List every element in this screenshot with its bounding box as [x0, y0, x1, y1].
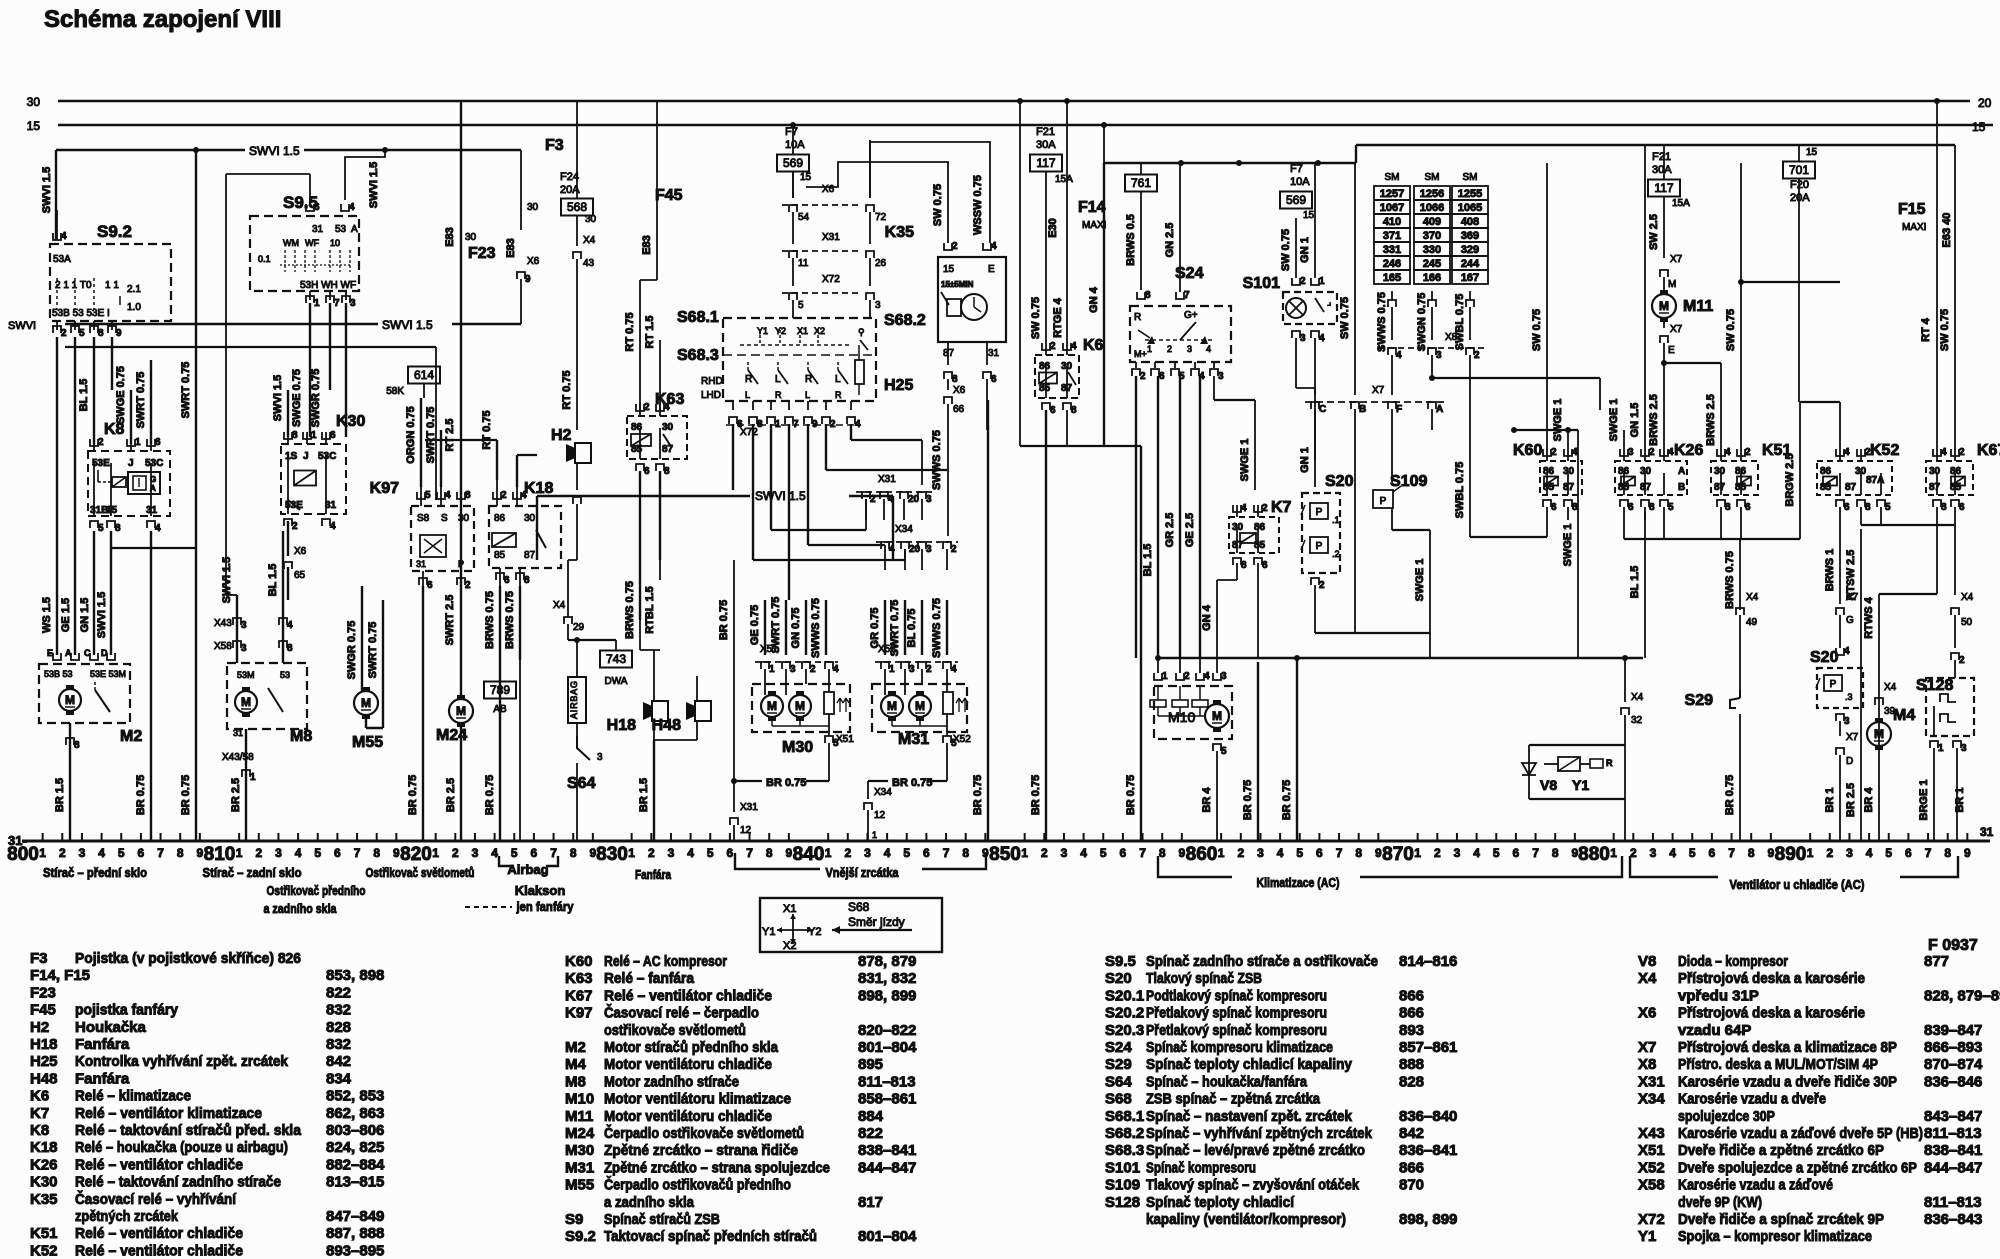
- svg-text:SWVI 1.5: SWVI 1.5: [221, 557, 233, 603]
- svg-text:K6: K6: [30, 1088, 49, 1105]
- svg-text:31: 31: [233, 728, 243, 738]
- svg-text:pojistka fanfáry: pojistka fanfáry: [75, 1002, 179, 1019]
- svg-text:9: 9: [197, 846, 204, 860]
- svg-text:30: 30: [662, 422, 674, 433]
- svg-text:866–893: 866–893: [1924, 1039, 1982, 1056]
- svg-text:SWVI 1.5: SWVI 1.5: [368, 162, 380, 208]
- svg-text:814–816: 814–816: [1399, 953, 1457, 970]
- svg-text:X72: X72: [740, 427, 758, 438]
- svg-text:Y1: Y1: [1638, 1228, 1656, 1245]
- svg-text:BRWS 0.75: BRWS 0.75: [484, 591, 496, 649]
- svg-text:15: 15: [1303, 210, 1315, 221]
- svg-text:87: 87: [1061, 383, 1073, 394]
- svg-text:RT 2.5: RT 2.5: [444, 418, 456, 451]
- alarm box 743 DWA: [600, 651, 632, 668]
- svg-text:X4: X4: [583, 235, 596, 246]
- svg-text:S20: S20: [1325, 473, 1354, 490]
- svg-text:Podtlakový spínač kompresoru: Podtlakový spínač kompresoru: [1146, 987, 1327, 1004]
- svg-text:X7: X7: [1372, 385, 1385, 396]
- svg-text:30A: 30A: [1652, 164, 1672, 176]
- svg-text:F21: F21: [1652, 151, 1671, 163]
- svg-text:Přetlakový spínač kompresoru: Přetlakový spínač kompresoru: [1146, 1022, 1327, 1039]
- svg-text:K52: K52: [30, 1242, 58, 1259]
- svg-text:5: 5: [951, 738, 957, 749]
- svg-text:SWVI 1.5: SWVI 1.5: [272, 375, 284, 421]
- svg-text:Karosérie vzadu a dveře řidiče: Karosérie vzadu a dveře řidiče 30P: [1678, 1073, 1897, 1090]
- svg-text:S64: S64: [1105, 1073, 1132, 1090]
- svg-text:Motor stíračů předního skla: Motor stíračů předního skla: [604, 1039, 779, 1056]
- svg-text:a zadního skla: a zadního skla: [604, 1194, 695, 1211]
- wire SWGE right: [1577, 430, 1579, 658]
- svg-text:4: 4: [61, 231, 67, 242]
- svg-text:X31: X31: [740, 802, 758, 813]
- svg-text:Kontrolka vyhřívání zpět. zrcá: Kontrolka vyhřívání zpět. zrcátek: [75, 1053, 289, 1070]
- svg-text:Motor zadního stírače: Motor zadního stírače: [604, 1073, 739, 1090]
- svg-text:X52: X52: [1638, 1159, 1665, 1176]
- svg-text:1 1: 1 1: [105, 280, 119, 291]
- svg-text:6: 6: [1628, 502, 1634, 513]
- svg-text:1: 1: [1807, 846, 1814, 860]
- svg-text:244: 244: [1461, 258, 1480, 270]
- svg-text:.2: .2: [1332, 549, 1340, 559]
- svg-text:10: 10: [330, 238, 340, 248]
- svg-text:11: 11: [798, 258, 809, 269]
- svg-text:BRWS 0.5: BRWS 0.5: [1125, 214, 1137, 266]
- svg-text:AIRBAG: AIRBAG: [569, 681, 579, 719]
- svg-text:Klakson: Klakson: [515, 883, 566, 898]
- svg-text:15: 15: [1972, 120, 1986, 134]
- svg-text:30: 30: [465, 232, 477, 243]
- svg-text:3: 3: [472, 846, 479, 860]
- svg-text:Spínač – nastavení zpět. zrcát: Spínač – nastavení zpět. zrcátek: [1146, 1108, 1353, 1125]
- svg-text:3: 3: [1061, 846, 1068, 860]
- svg-text:RT 0.75: RT 0.75: [624, 312, 636, 351]
- svg-text:.1: .1: [1332, 515, 1340, 525]
- svg-text:3: 3: [1257, 846, 1264, 860]
- blower motor M10: [1154, 686, 1232, 739]
- svg-text:M: M: [767, 699, 777, 713]
- svg-text:4: 4: [1844, 646, 1850, 657]
- svg-text:30: 30: [1640, 466, 1652, 477]
- svg-text:86: 86: [1820, 466, 1832, 477]
- wire K7 connections: [1236, 563, 1238, 580]
- svg-text:S68.3: S68.3: [1105, 1142, 1144, 1159]
- svg-text:86: 86: [494, 513, 506, 524]
- svg-text:SM: SM: [1463, 172, 1478, 183]
- svg-text:Klimatizace (AC): Klimatizace (AC): [1257, 875, 1340, 890]
- svg-text:M: M: [887, 699, 897, 713]
- svg-text:3: 3: [79, 846, 86, 860]
- svg-text:SW 0.75: SW 0.75: [1339, 297, 1351, 339]
- svg-text:RTGE 4: RTGE 4: [1052, 297, 1064, 338]
- svg-text:Motor ventilátoru chladiče: Motor ventilátoru chladiče: [604, 1108, 772, 1125]
- wire bus 30: [58, 100, 1970, 103]
- svg-text:371: 371: [1383, 230, 1401, 242]
- svg-text:BL 1.5: BL 1.5: [78, 379, 90, 412]
- svg-text:1: 1: [889, 664, 895, 675]
- svg-text:6: 6: [155, 437, 161, 448]
- svg-text:M2: M2: [120, 728, 142, 745]
- svg-text:BRGE 1: BRGE 1: [1918, 780, 1930, 821]
- svg-text:53E: 53E: [92, 458, 110, 469]
- svg-text:F45: F45: [30, 1002, 56, 1019]
- wire left rail drops: [195, 360, 197, 841]
- svg-text:761: 761: [1131, 176, 1151, 190]
- svg-text:15A: 15A: [1672, 198, 1690, 209]
- svg-text:165: 165: [1383, 272, 1401, 284]
- svg-text:SWVI 1.5: SWVI 1.5: [249, 144, 300, 158]
- svg-text:884: 884: [858, 1108, 884, 1125]
- svg-text:M30: M30: [565, 1142, 594, 1159]
- svg-text:SWGE 1: SWGE 1: [1552, 399, 1564, 442]
- svg-text:5: 5: [833, 738, 839, 749]
- svg-text:BRWS 0.75: BRWS 0.75: [504, 591, 516, 649]
- svg-text:X43: X43: [214, 618, 232, 629]
- svg-text:3: 3: [926, 494, 932, 505]
- svg-text:1: 1: [769, 664, 775, 675]
- wires BR to rail 860: [1257, 658, 1259, 841]
- svg-text:K18: K18: [524, 480, 553, 497]
- svg-text:6: 6: [1709, 846, 1716, 860]
- svg-text:H18: H18: [30, 1036, 58, 1053]
- svg-text:5: 5: [1689, 846, 1696, 860]
- wires to mirror motors: [764, 600, 766, 655]
- svg-text:Přetlakový spínač kompresoru: Přetlakový spínač kompresoru: [1146, 1005, 1327, 1022]
- svg-text:S68.2: S68.2: [1105, 1125, 1144, 1142]
- svg-text:6: 6: [1959, 502, 1965, 513]
- svg-text:1257: 1257: [1380, 188, 1404, 200]
- svg-text:85: 85: [1039, 383, 1051, 394]
- svg-text:8: 8: [115, 523, 121, 534]
- svg-text:9: 9: [1768, 846, 1775, 860]
- svg-text:S8: S8: [417, 513, 430, 524]
- svg-text:X8: X8: [1445, 332, 1458, 343]
- svg-text:2: 2: [61, 328, 67, 339]
- svg-text:GN 4: GN 4: [1088, 286, 1100, 313]
- svg-text:801–804: 801–804: [858, 1228, 917, 1245]
- svg-text:A: A: [1436, 404, 1443, 415]
- svg-text:R: R: [775, 390, 782, 400]
- svg-text:kapaliny (ventilátor/kompresor: kapaliny (ventilátor/kompresor): [1146, 1211, 1346, 1228]
- svg-text:K7: K7: [30, 1105, 49, 1122]
- svg-text:4: 4: [664, 402, 670, 413]
- svg-text:5: 5: [425, 490, 431, 501]
- svg-text:⚲: ⚲: [858, 327, 865, 337]
- svg-text:1: 1: [1610, 846, 1617, 860]
- svg-text:329: 329: [1461, 244, 1479, 256]
- svg-text:zpětných zrcátek: zpětných zrcátek: [75, 1208, 179, 1225]
- svg-text:2: 2: [644, 402, 650, 413]
- svg-text:Dveře spolujezdce a zpětné zrc: Dveře spolujezdce a zpětné zrcátko 6P: [1678, 1159, 1917, 1176]
- svg-text:SWRT 0.75: SWRT 0.75: [425, 407, 437, 464]
- svg-text:817: 817: [858, 1194, 883, 1211]
- svg-text:7: 7: [746, 846, 753, 860]
- svg-text:K8: K8: [30, 1122, 49, 1139]
- svg-text:F 0937: F 0937: [1928, 937, 1978, 954]
- svg-text:J: J: [303, 451, 309, 462]
- svg-text:87A: 87A: [1866, 475, 1884, 486]
- svg-text:4: 4: [833, 664, 839, 675]
- svg-text:BR 0.75: BR 0.75: [1724, 775, 1736, 815]
- svg-text:SW 0.75: SW 0.75: [1725, 309, 1737, 351]
- svg-text:4: 4: [1396, 350, 1402, 361]
- svg-text:15: 15: [943, 264, 955, 275]
- svg-text:Směr jízdy: Směr jízdy: [848, 915, 905, 929]
- svg-text:X6: X6: [953, 385, 966, 396]
- svg-text:F14, F15: F14, F15: [30, 967, 90, 984]
- wire junction horizontal: [1158, 657, 1643, 659]
- svg-text:1065: 1065: [1458, 202, 1482, 214]
- svg-text:4: 4: [889, 544, 895, 555]
- connector X6 pin 65: [284, 562, 292, 569]
- svg-text:V8: V8: [1540, 777, 1557, 793]
- svg-text:7: 7: [1728, 846, 1735, 860]
- svg-text:Dveře řidiče a spínač zrcátek: Dveře řidiče a spínač zrcátek 9P: [1678, 1211, 1884, 1228]
- svg-text:4: 4: [1071, 341, 1077, 352]
- svg-text:BR 4: BR 4: [1201, 787, 1213, 813]
- svg-text:117: 117: [1654, 181, 1673, 195]
- svg-text:15±5MIN: 15±5MIN: [941, 280, 974, 289]
- svg-text:SWVI: SWVI: [8, 320, 36, 332]
- svg-text:BRWS 1: BRWS 1: [1824, 549, 1836, 592]
- svg-text:BRWS 0.75: BRWS 0.75: [1724, 551, 1736, 609]
- svg-text:3: 3: [1844, 716, 1850, 727]
- svg-text:5: 5: [1221, 746, 1227, 757]
- svg-text:7: 7: [1532, 846, 1539, 860]
- wire K52 K67 grounds: [1839, 507, 1841, 520]
- svg-text:WSSW 0.75: WSSW 0.75: [972, 175, 984, 235]
- wire ground rail 31: [22, 840, 1990, 843]
- svg-text:S128: S128: [1105, 1194, 1140, 1211]
- svg-text:15: 15: [1806, 147, 1818, 158]
- svg-text:BR 2.5: BR 2.5: [230, 778, 242, 812]
- svg-text:A: A: [1678, 466, 1685, 477]
- wire SWVI 1.5 horizontal mid: [65, 323, 378, 325]
- svg-text:6: 6: [330, 430, 336, 441]
- svg-text:K52: K52: [1870, 442, 1899, 459]
- svg-text:8: 8: [1865, 502, 1871, 513]
- svg-text:K26: K26: [1674, 442, 1703, 459]
- svg-text:G+: G+: [1184, 310, 1198, 321]
- svg-text:A: A: [65, 648, 72, 658]
- svg-text:1: 1: [1162, 671, 1168, 682]
- svg-text:S68: S68: [1105, 1091, 1132, 1108]
- svg-text:Čerpadlo ostřikovače světlomet: Čerpadlo ostřikovače světlometů: [604, 1124, 804, 1142]
- svg-text:887, 888: 887, 888: [326, 1225, 384, 1242]
- svg-text:BR 1: BR 1: [1824, 787, 1836, 812]
- svg-text:Relé – AC kompresor: Relé – AC kompresor: [604, 953, 727, 970]
- wire SWGN to K26: [1431, 429, 1433, 431]
- svg-text:830: 830: [596, 844, 628, 865]
- wires S24 down: [1135, 376, 1137, 658]
- svg-text:Spínač kompresoru klimatizace: Spínač kompresoru klimatizace: [1146, 1039, 1333, 1056]
- pump M55: [354, 691, 378, 715]
- svg-text:2: 2: [1551, 447, 1557, 458]
- svg-text:842: 842: [326, 1053, 351, 1070]
- svg-text:Relé – ventilátor chladiče: Relé – ventilátor chladiče: [75, 1242, 243, 1259]
- svg-text:1: 1: [1414, 846, 1421, 860]
- connector X6 66: [947, 379, 949, 390]
- svg-text:50: 50: [1961, 617, 1973, 628]
- svg-text:SWWS 0.75: SWWS 0.75: [810, 598, 822, 658]
- svg-text:SWVI 1.5: SWVI 1.5: [755, 489, 806, 503]
- svg-text:3: 3: [1300, 333, 1306, 344]
- svg-text:53M: 53M: [237, 670, 255, 680]
- svg-text:K67: K67: [1977, 442, 2000, 459]
- svg-text:87: 87: [1640, 482, 1652, 493]
- svg-text:RT 0.75: RT 0.75: [561, 370, 573, 409]
- svg-text:M24: M24: [436, 727, 467, 744]
- svg-text:RT 1.5: RT 1.5: [644, 315, 656, 348]
- svg-text:898, 899: 898, 899: [858, 987, 916, 1004]
- svg-text:30: 30: [527, 202, 539, 213]
- svg-text:F15: F15: [1898, 201, 1926, 218]
- svg-text:53C: 53C: [318, 451, 336, 462]
- svg-text:831, 832: 831, 832: [858, 970, 916, 987]
- svg-text:SWGR 0.75: SWGR 0.75: [310, 369, 322, 428]
- wire K26 K51 grounds: [1623, 507, 1625, 539]
- svg-text:dveře 9P (KW): dveře 9P (KW): [1678, 1194, 1762, 1211]
- svg-text:Časovací relé – čerpadlo: Časovací relé – čerpadlo: [604, 1004, 759, 1022]
- svg-text:3: 3: [597, 752, 603, 763]
- svg-text:spolujezdce 30P: spolujezdce 30P: [1678, 1108, 1775, 1125]
- svg-text:408: 408: [1461, 216, 1479, 228]
- svg-text:4: 4: [1725, 447, 1731, 458]
- svg-text:M10: M10: [1168, 709, 1195, 725]
- svg-text:F21: F21: [1036, 126, 1055, 138]
- svg-text:BL 1.5: BL 1.5: [1629, 566, 1641, 599]
- svg-text:4: 4: [1941, 447, 1947, 458]
- tag 761: [1125, 175, 1157, 192]
- wire K60 connections: [1546, 163, 1548, 449]
- svg-text:R: R: [1134, 312, 1141, 323]
- svg-text:Karosérie vzadu a dveře: Karosérie vzadu a dveře: [1678, 1091, 1826, 1108]
- svg-text:6: 6: [1316, 846, 1323, 860]
- wire from bus30 at 1020: [1017, 98, 1023, 104]
- svg-text:7: 7: [334, 298, 340, 309]
- svg-text:30: 30: [524, 513, 536, 524]
- svg-text:6: 6: [334, 846, 341, 860]
- svg-text:2: 2: [98, 437, 104, 448]
- svg-text:X6: X6: [822, 184, 835, 195]
- svg-text:1: 1: [39, 846, 46, 860]
- svg-text:Y1: Y1: [762, 926, 775, 938]
- svg-text:30: 30: [1855, 466, 1867, 477]
- svg-text:BR 1: BR 1: [1954, 787, 1966, 812]
- svg-text:M24: M24: [565, 1125, 595, 1142]
- svg-text:2: 2: [452, 846, 459, 860]
- svg-text:893–895: 893–895: [326, 1242, 384, 1259]
- svg-text:E: E: [1668, 345, 1675, 356]
- svg-text:X34: X34: [874, 787, 892, 798]
- svg-text:S9.5: S9.5: [1105, 953, 1136, 970]
- svg-text:569: 569: [783, 156, 803, 170]
- svg-text:Spínač stíračů ZSB: Spínač stíračů ZSB: [604, 1211, 720, 1228]
- svg-text:X72: X72: [822, 274, 840, 285]
- svg-text:880: 880: [1578, 844, 1610, 865]
- wire K6 grounds: [1045, 410, 1047, 841]
- svg-text:3: 3: [1846, 846, 1853, 860]
- svg-text:D: D: [101, 648, 108, 658]
- svg-text:8: 8: [570, 846, 577, 860]
- svg-text:M: M: [1668, 279, 1676, 290]
- svg-text:30: 30: [585, 214, 597, 225]
- svg-text:P: P: [1380, 496, 1387, 507]
- svg-text:4: 4: [521, 490, 527, 501]
- svg-text:SW 2.5: SW 2.5: [1648, 214, 1660, 250]
- svg-text:2: 2: [1434, 846, 1441, 860]
- svg-text:S64: S64: [567, 775, 596, 792]
- svg-text:3: 3: [790, 664, 796, 675]
- svg-text:SWWS 0.75: SWWS 0.75: [931, 430, 943, 490]
- svg-text:K63: K63: [565, 970, 593, 987]
- svg-text:870: 870: [1382, 844, 1414, 865]
- svg-text:30: 30: [1929, 466, 1941, 477]
- svg-text:743: 743: [606, 652, 626, 666]
- svg-text:H18: H18: [607, 717, 636, 734]
- svg-text:53: 53: [335, 224, 347, 235]
- svg-text:878, 879: 878, 879: [858, 953, 916, 970]
- svg-text:E83: E83: [641, 235, 653, 255]
- svg-text:3: 3: [241, 643, 247, 654]
- svg-text:5: 5: [1668, 502, 1674, 513]
- svg-text:6: 6: [1844, 502, 1850, 513]
- svg-text:F14: F14: [1078, 199, 1106, 216]
- svg-text:M31: M31: [898, 731, 929, 748]
- wire M2 ground: [69, 723, 71, 841]
- svg-text:Relé – houkačka (pouze u airba: Relé – houkačka (pouze u airbagu): [75, 1139, 288, 1156]
- svg-text:53B 53: 53B 53: [44, 669, 73, 679]
- svg-text:H2: H2: [551, 427, 572, 444]
- svg-text:S101: S101: [1243, 275, 1280, 292]
- svg-text:M11: M11: [1683, 298, 1713, 315]
- svg-text:86: 86: [1950, 466, 1962, 477]
- svg-text:2: 2: [844, 846, 851, 860]
- svg-text:8: 8: [766, 846, 773, 860]
- svg-text:1: 1: [1021, 846, 1028, 860]
- svg-text:72: 72: [875, 212, 887, 223]
- svg-text:A: A: [351, 224, 358, 235]
- svg-text:SWGE 0.75: SWGE 0.75: [115, 366, 127, 424]
- svg-text:S29: S29: [1105, 1056, 1132, 1073]
- svg-text:2: 2: [1474, 350, 1480, 361]
- svg-text:S68.2: S68.2: [884, 312, 926, 329]
- svg-text:X7: X7: [1670, 254, 1683, 265]
- svg-text:4: 4: [991, 241, 997, 252]
- svg-text:BR 4: BR 4: [1863, 787, 1875, 813]
- svg-text:GN 1.5: GN 1.5: [79, 598, 91, 633]
- svg-text:245: 245: [1423, 258, 1441, 270]
- svg-text:S9: S9: [565, 1211, 583, 1228]
- svg-text:842: 842: [1399, 1125, 1424, 1142]
- svg-text:5: 5: [1885, 502, 1891, 513]
- svg-text:RTSW 2.5: RTSW 2.5: [1845, 550, 1857, 601]
- svg-text:M8: M8: [565, 1073, 586, 1090]
- svg-text:RTBL 1.5: RTBL 1.5: [644, 586, 656, 633]
- svg-text:5: 5: [79, 328, 85, 339]
- svg-text:53B 53 53E I: 53B 53 53E I: [52, 308, 110, 319]
- svg-text:jen fanfáry: jen fanfáry: [516, 899, 575, 914]
- svg-text:Houkačka: Houkačka: [75, 1019, 147, 1036]
- svg-text:2: 2: [1140, 371, 1146, 382]
- svg-text:369: 369: [1461, 230, 1479, 242]
- svg-text:6: 6: [314, 202, 320, 213]
- svg-text:31: 31: [312, 224, 324, 235]
- svg-text:BR 0.75: BR 0.75: [1125, 775, 1137, 815]
- legend box S68 smer jizdy: [760, 898, 942, 952]
- svg-text:810: 810: [204, 844, 236, 865]
- svg-text:Karosérie vzadu a záďové dveře: Karosérie vzadu a záďové dveře 5P (HB): [1678, 1125, 1923, 1142]
